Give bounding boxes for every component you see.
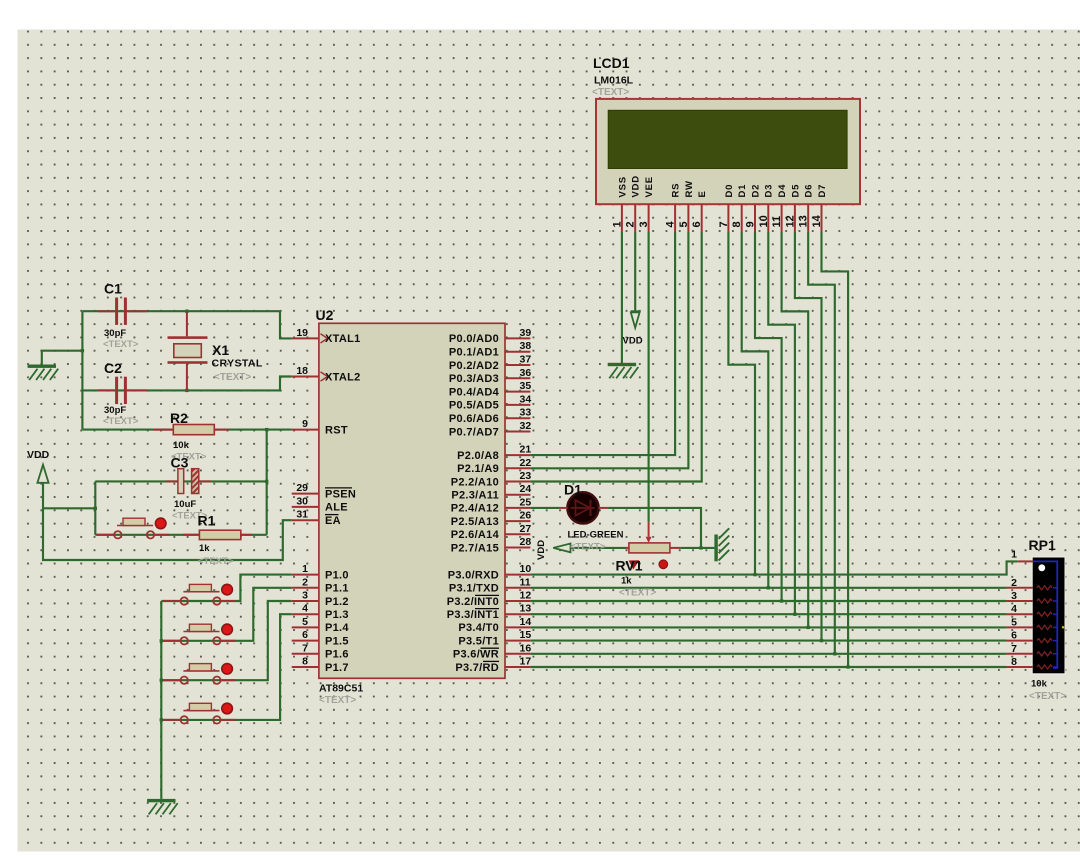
svg-text:P0.5/AD5: P0.5/AD5 (449, 400, 499, 412)
svg-text:P0.2/AD2: P0.2/AD2 (449, 360, 499, 372)
svg-text:P3.5/T1: P3.5/T1 (458, 635, 499, 647)
svg-text:P3.7/RD: P3.7/RD (455, 662, 499, 674)
svg-text:P2.4/A12: P2.4/A12 (451, 503, 499, 515)
svg-text:<TEXT>: <TEXT> (319, 695, 356, 706)
svg-text:3: 3 (638, 221, 650, 227)
svg-text:P1.7: P1.7 (325, 662, 349, 674)
svg-text:D1: D1 (564, 482, 582, 498)
svg-text:R2: R2 (170, 410, 188, 426)
svg-text:CRYSTAL: CRYSTAL (212, 358, 263, 370)
svg-text:10k: 10k (173, 440, 190, 451)
svg-text:P3.0/RXD: P3.0/RXD (448, 569, 499, 581)
svg-text:14: 14 (811, 214, 823, 227)
svg-text:13: 13 (520, 603, 532, 615)
svg-text:P2.0/A8: P2.0/A8 (457, 450, 499, 462)
svg-text:31: 31 (296, 509, 308, 521)
svg-text:VDD: VDD (27, 449, 50, 461)
svg-text:3: 3 (302, 590, 308, 602)
svg-text:1k: 1k (199, 543, 210, 554)
svg-text:10uF: 10uF (174, 499, 196, 510)
svg-text:ALE: ALE (325, 502, 348, 514)
svg-text:P1.2: P1.2 (325, 596, 349, 608)
svg-text:RW: RW (684, 180, 695, 197)
svg-text:D7: D7 (817, 184, 828, 198)
svg-text:9: 9 (302, 418, 308, 430)
svg-text:5: 5 (1011, 616, 1017, 628)
svg-text:VDD: VDD (536, 540, 547, 560)
svg-text:P3.4/T0: P3.4/T0 (458, 622, 499, 634)
svg-text:P3.1/TXD: P3.1/TXD (449, 583, 499, 595)
svg-text:12: 12 (520, 590, 532, 602)
svg-text:P2.6/A14: P2.6/A14 (451, 529, 500, 541)
svg-text:P1.5: P1.5 (325, 635, 349, 647)
svg-text:D1: D1 (737, 184, 748, 198)
svg-text:4: 4 (302, 603, 308, 615)
svg-text:D3: D3 (764, 184, 775, 198)
svg-text:E: E (697, 190, 708, 197)
svg-text:P2.7/A15: P2.7/A15 (451, 542, 499, 554)
svg-text:23: 23 (520, 470, 532, 482)
svg-text:9: 9 (745, 221, 757, 227)
svg-text:PSEN: PSEN (325, 488, 356, 500)
svg-text:XTAL2: XTAL2 (325, 371, 361, 383)
svg-text:32: 32 (520, 420, 532, 432)
svg-text:U2: U2 (316, 307, 334, 323)
svg-text:P3.2/INT0: P3.2/INT0 (447, 596, 499, 608)
svg-text:1k: 1k (621, 576, 632, 587)
svg-text:<TEXT>: <TEXT> (592, 87, 629, 98)
svg-text:P3.6/WR: P3.6/WR (453, 649, 499, 661)
svg-text:18: 18 (296, 365, 308, 377)
svg-text:6: 6 (1011, 630, 1017, 642)
svg-text:38: 38 (520, 340, 532, 352)
svg-text:3: 3 (1011, 590, 1017, 602)
svg-text:C3: C3 (171, 455, 189, 471)
svg-text:P1.4: P1.4 (325, 622, 349, 634)
svg-text:D5: D5 (790, 184, 801, 198)
svg-text:30: 30 (296, 495, 308, 507)
svg-text:10k: 10k (1031, 679, 1048, 690)
svg-text:19: 19 (296, 327, 308, 339)
svg-text:7: 7 (1011, 643, 1017, 655)
svg-text:P0.0/AD0: P0.0/AD0 (449, 333, 499, 345)
svg-text:15: 15 (520, 629, 532, 641)
svg-text:RS: RS (671, 183, 682, 198)
svg-text:34: 34 (520, 393, 532, 405)
svg-text:LCD1: LCD1 (593, 55, 630, 71)
svg-text:5: 5 (678, 221, 690, 227)
svg-text:P2.1/A9: P2.1/A9 (457, 463, 499, 475)
svg-text:28: 28 (520, 536, 532, 548)
svg-text:<TEXT>: <TEXT> (103, 416, 139, 427)
svg-text:1: 1 (302, 563, 308, 575)
svg-text:LM016L: LM016L (594, 75, 634, 87)
svg-text:5: 5 (302, 616, 308, 628)
svg-text:<TEXT>: <TEXT> (103, 339, 139, 350)
svg-text:VEE: VEE (644, 176, 655, 197)
svg-text:XTAL1: XTAL1 (325, 333, 361, 345)
svg-text:P1.3: P1.3 (325, 609, 349, 621)
svg-text:36: 36 (520, 367, 532, 379)
svg-text:11: 11 (520, 576, 531, 588)
svg-text:X1: X1 (212, 342, 229, 358)
svg-text:25: 25 (520, 496, 532, 508)
svg-text:P0.7/AD7: P0.7/AD7 (449, 426, 499, 438)
svg-text:30pF: 30pF (104, 405, 126, 416)
svg-text:30pF: 30pF (104, 328, 126, 339)
svg-text:24: 24 (520, 483, 532, 495)
svg-text:<TEXT>: <TEXT> (198, 556, 234, 567)
svg-text:RP1: RP1 (1029, 537, 1056, 553)
svg-text:10: 10 (520, 563, 532, 575)
svg-text:8: 8 (731, 221, 743, 227)
svg-text:R1: R1 (198, 513, 216, 529)
svg-text:2: 2 (625, 221, 637, 227)
svg-text:P0.3/AD3: P0.3/AD3 (449, 373, 499, 385)
svg-text:VSS: VSS (617, 176, 628, 197)
svg-text:26: 26 (520, 510, 532, 522)
svg-text:6: 6 (691, 221, 703, 227)
svg-text:<TEXT>: <TEXT> (619, 588, 656, 599)
svg-text:33: 33 (520, 407, 532, 419)
svg-text:P1.6: P1.6 (325, 649, 349, 661)
svg-text:VDD: VDD (623, 336, 643, 347)
svg-text:1: 1 (611, 221, 623, 227)
svg-text:7: 7 (718, 221, 730, 227)
svg-text:2: 2 (1011, 577, 1017, 589)
svg-text:P3.3/INT1: P3.3/INT1 (447, 609, 499, 621)
svg-text:D0: D0 (724, 184, 735, 198)
svg-text:4: 4 (665, 221, 677, 228)
svg-text:4: 4 (1011, 603, 1017, 615)
svg-text:8: 8 (302, 656, 308, 668)
svg-text:RST: RST (325, 424, 348, 436)
svg-text:<TEXT>: <TEXT> (214, 372, 251, 383)
svg-text:2: 2 (302, 576, 308, 588)
svg-text:8: 8 (1011, 656, 1017, 668)
svg-text:P2.2/A10: P2.2/A10 (451, 476, 499, 488)
svg-text:16: 16 (520, 642, 532, 654)
svg-text:C2: C2 (104, 360, 122, 376)
svg-text:VDD: VDD (631, 175, 642, 197)
svg-text:29: 29 (296, 482, 308, 494)
svg-text:12: 12 (784, 215, 796, 227)
svg-text:21: 21 (520, 444, 532, 456)
svg-text:D2: D2 (750, 184, 761, 198)
svg-text:D4: D4 (777, 184, 788, 198)
svg-text:AT89C51: AT89C51 (319, 683, 363, 695)
svg-text:D6: D6 (804, 184, 815, 198)
svg-text:P2.3/A11: P2.3/A11 (451, 490, 499, 502)
svg-text:RV1: RV1 (616, 558, 643, 574)
svg-text:27: 27 (520, 523, 532, 535)
svg-text:17: 17 (520, 656, 532, 668)
svg-text:P1.1: P1.1 (325, 583, 349, 595)
svg-text:6: 6 (302, 629, 308, 641)
svg-text:37: 37 (520, 354, 532, 366)
svg-text:P2.5/A13: P2.5/A13 (451, 516, 499, 528)
svg-text:EA: EA (325, 515, 341, 527)
svg-text:22: 22 (520, 457, 532, 469)
svg-text:LED-GREEN: LED-GREEN (568, 530, 624, 541)
svg-text:35: 35 (520, 380, 532, 392)
svg-text:39: 39 (520, 327, 532, 339)
svg-text:7: 7 (302, 642, 308, 654)
svg-text:14: 14 (520, 616, 532, 628)
svg-text:13: 13 (798, 215, 810, 227)
svg-text:<TEXT>: <TEXT> (570, 542, 606, 553)
svg-text:C1: C1 (104, 281, 122, 297)
svg-text:10: 10 (758, 215, 770, 227)
svg-text:P0.1/AD1: P0.1/AD1 (449, 347, 499, 359)
svg-text:P1.0: P1.0 (325, 569, 349, 581)
svg-text:1: 1 (1011, 549, 1017, 561)
svg-text:<TEXT>: <TEXT> (1029, 691, 1066, 702)
svg-text:11: 11 (771, 216, 783, 228)
svg-text:P0.4/AD4: P0.4/AD4 (449, 386, 500, 398)
svg-text:P0.6/AD6: P0.6/AD6 (449, 413, 499, 425)
